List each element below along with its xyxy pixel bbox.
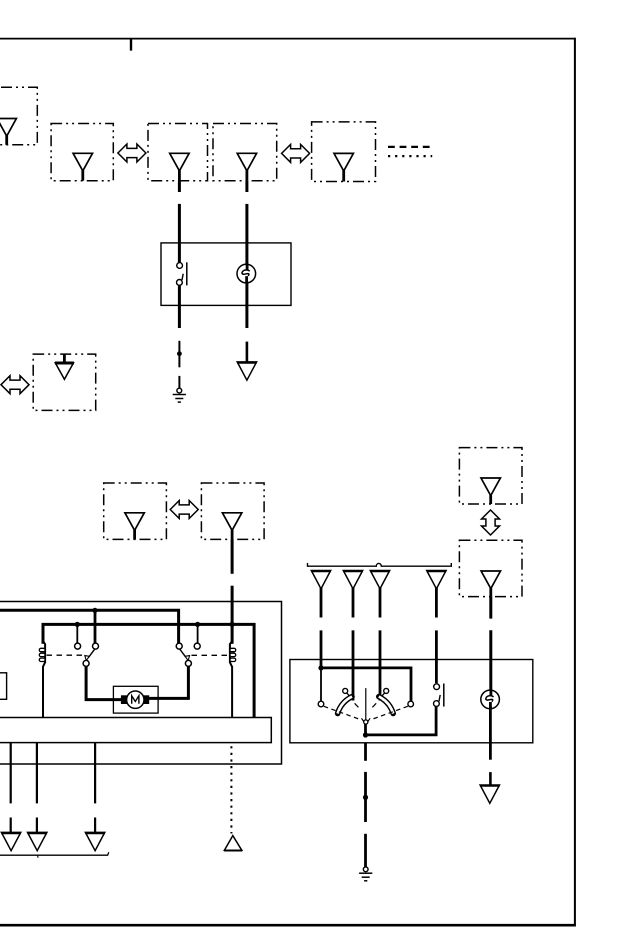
contact link (left) [347, 693, 351, 697]
wire C3 to junction box (upper seg) [178, 181, 181, 192]
rotary contact circle (left outer) [318, 701, 324, 707]
wire C8 into relay box to coil K2 [231, 586, 234, 644]
rotary position ray (left, dashed) [324, 706, 361, 720]
connector C10 (right column lower) [459, 540, 522, 596]
frame right border [574, 38, 576, 926]
wire C10 down (upper seg) [489, 597, 492, 619]
motor M1 brushes [121, 695, 149, 704]
wire pivot below box (seg 1) [364, 743, 367, 761]
wire bus output 2 [36, 743, 38, 833]
wire K1 common to motor [86, 666, 122, 699]
motor M1 [127, 691, 144, 708]
junction on pivot wire [363, 732, 368, 737]
ground G1 [173, 388, 186, 402]
junction on W2 mid [195, 622, 200, 627]
wire C4 to junction box (upper seg) [245, 181, 248, 192]
off-page arrow T4 (down) [27, 832, 47, 850]
connector C3 [148, 124, 208, 181]
bracket under arrows [0, 852, 109, 858]
wire C10 into switch box to lamp L2 [489, 630, 492, 696]
inline connector arrow A5 (vertical) [482, 510, 500, 535]
wire P2 into box [352, 630, 355, 700]
rotary contact segment (right crescent) [379, 697, 393, 714]
wire pivot to switch SW2 [366, 707, 437, 735]
rotary contact circle (right inner) [384, 688, 389, 693]
off-page arrow T3 (down) [1, 832, 21, 850]
wire C8 down (upper seg) [231, 539, 234, 573]
relay contact K2 blade [180, 649, 190, 660]
bus bar strip [0, 718, 271, 743]
connector C4 [213, 124, 277, 181]
wire bus output 3 [94, 743, 96, 833]
wire coil K2 to bus bar [231, 666, 233, 718]
sub-connector box (cut at left edge) [0, 673, 7, 700]
wire P1 into box [320, 630, 323, 669]
off-page arrow T6 (up) [224, 836, 242, 851]
rotary contact segment (left crescent) [338, 697, 352, 714]
dashed continuation mark [388, 146, 431, 148]
lamp L1 [237, 264, 256, 283]
inline connector arrow A1 [118, 144, 146, 162]
wire L2 stub to off-page arrow [489, 772, 492, 784]
wire C3 to switch SW1 [178, 204, 181, 263]
inline connector arrow A3 [1, 376, 29, 394]
wire P1 thin drop to left contact [320, 668, 322, 701]
wire L1 down through box [245, 282, 248, 328]
connector C5 [312, 122, 376, 182]
wire pivot (seg 2 with junction) [363, 772, 368, 822]
connector C7 [104, 483, 167, 539]
wire W2 branch to contact K2b [197, 624, 199, 643]
ground G2 [359, 867, 372, 881]
wire P1 branch L-shape to right contact [321, 668, 411, 701]
component box U1 (switch and lamp unit) [161, 243, 291, 306]
wire SW1 to ground (seg with junction) [177, 341, 182, 368]
wire bus output 1 [10, 743, 12, 833]
relay coil K2 [230, 641, 236, 667]
rotary contact circle (left inner) [343, 688, 348, 693]
wire coil K1 to bus bar [42, 666, 44, 718]
connector pin P4 [427, 571, 447, 618]
off-page arrow T5 (down) [85, 832, 105, 850]
junction on W1 [92, 608, 97, 613]
inline connector arrow A2 [282, 144, 310, 162]
wire pivot down to junction [364, 724, 367, 736]
frame tick mark [130, 39, 132, 51]
switch SW2 [434, 684, 444, 707]
dotted wire to up arrow [230, 746, 232, 833]
connector C8 [201, 483, 264, 539]
relay contact K1 terminals [75, 643, 99, 649]
junction on P1 wire [318, 665, 323, 670]
rotary wiper axis line [365, 688, 367, 720]
connector pin P1 [311, 571, 331, 618]
frame bottom border [0, 924, 576, 927]
connector pin P2 [343, 571, 363, 618]
connector C9 (right column upper) [459, 448, 522, 504]
dotted continuation mark [388, 155, 432, 157]
wire C4 to lamp L1 [245, 204, 248, 265]
rotary contact circle (right outer) [408, 701, 414, 707]
mechanical link K1 (dashed) [47, 654, 84, 656]
wire SW1 down through box [178, 285, 181, 328]
off-page arrow T2 (down) [480, 785, 500, 803]
relay coil K1 [39, 641, 45, 667]
motor M1 box [113, 686, 158, 713]
rotary pivot dashes [362, 718, 371, 721]
connector group bracket [308, 563, 452, 566]
lamp L2 [481, 690, 500, 709]
wire pivot (seg 3 to ground) [364, 834, 367, 867]
wire K2 common to motor [149, 666, 189, 698]
connector C2 [51, 124, 113, 181]
rotary position dash (right short) [372, 703, 376, 707]
connector pin P3 [370, 571, 390, 618]
wire P4 into box [435, 630, 438, 683]
junction on W2 left [75, 622, 80, 627]
rotary pivot circle [364, 720, 368, 724]
switch SW1 [177, 262, 187, 285]
relay contact K2 terminals [176, 643, 200, 649]
connector C1 (top-left, cut off) [0, 87, 37, 145]
relay contact K2 common [185, 660, 191, 666]
connector C6 (left middle) [33, 354, 95, 410]
wire L1 stub to off-page arrow [246, 342, 249, 363]
wire W1 branch down [94, 610, 97, 643]
junction on W2 right (C8 feed) [230, 622, 235, 627]
frame top border [0, 38, 576, 40]
relay contact K1 common [83, 660, 89, 666]
wire W2 branch to contact K1a [76, 624, 78, 643]
relay/motor unit box U2 [0, 602, 282, 765]
rotary position ray (right, dashed) [371, 706, 408, 720]
wire bus W2 (second feed) [43, 624, 254, 717]
wire bus W1 (top feed) [0, 610, 179, 643]
wire L2 down through box [489, 706, 492, 759]
off-page arrow T1 (down) [237, 362, 257, 380]
contact link (right) [381, 693, 385, 697]
relay contact K1 blade [85, 649, 95, 660]
rotary position dash (left short) [355, 703, 359, 707]
combination switch box U3 [290, 660, 533, 743]
wire P3 into box [379, 630, 382, 700]
inline connector arrow A4 [170, 501, 198, 519]
wire to ground G1 [178, 376, 180, 388]
mechanical link K2 (dashed) [192, 654, 229, 656]
